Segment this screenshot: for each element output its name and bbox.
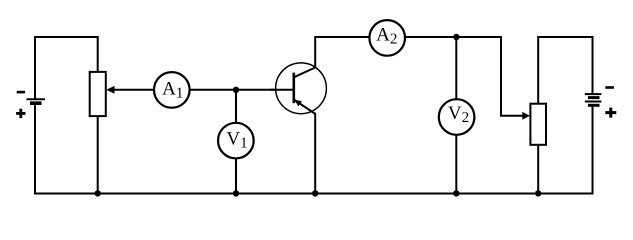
wire: top rail from R2 to battery B2 (537, 36, 592, 38)
wire: emitter vertical down to bus (314, 113, 316, 194)
rheostat R1 wiper arrowhead (106, 86, 114, 94)
transistor Q1 emitter diagonal (294, 100, 315, 114)
battery B1 long thin plate (27, 98, 46, 100)
wire: R1 top stub (97, 36, 99, 73)
label: B1 minus sign (17, 91, 25, 94)
label: B1 plus sign (16, 109, 25, 118)
ammeter A2 circle (369, 20, 405, 56)
ammeter A1 circle (154, 72, 190, 108)
transistor Q1 collector diagonal (294, 68, 315, 78)
battery B2 plate 2 (thick short) (588, 96, 600, 99)
wire: V1 bottom stub to bus (235, 157, 237, 194)
node: junction dot bus / V1 (233, 190, 239, 196)
wire: V1 stub down from base-wire junction (235, 90, 237, 125)
wire: top rail from collector to A2 to corner (314, 36, 501, 38)
voltmeter V1 circle (218, 123, 254, 159)
wire: V2 stub down from top-rail junction (455, 37, 457, 100)
transistor Q1 body circle (276, 63, 327, 114)
rheostat R1 (left potentiometer) (90, 72, 106, 116)
wire: collector vertical up to top rail (314, 38, 316, 68)
wire: base wire segment inside Q1 (270, 89, 295, 91)
voltmeter V2 circle (439, 99, 475, 135)
wire: B2 top lead (592, 36, 594, 94)
transistor Q1 emitter arrow (PNP, points toward base) (294, 100, 302, 107)
wire: left vertical upper (B1 top lead) (34, 36, 36, 99)
wire: R2 bottom stub to bus (537, 143, 539, 194)
node: junction dot bus / V2 (453, 190, 459, 196)
wire: B2 bottom lead to bus (592, 107, 594, 195)
wire: V2 bottom stub to bus (455, 134, 457, 194)
wire: R1 wiper to ammeter A1 and on to transistor base (108, 89, 295, 91)
node: junction dot bus / R2 (535, 190, 541, 196)
label: B2 plus sign (605, 108, 616, 118)
rheostat R2 wiper arrowhead (522, 112, 530, 120)
wire: R2 top stub (537, 36, 539, 105)
node: junction dot bus / emitter (312, 190, 318, 196)
node: junction dot top rail / V2 (453, 34, 459, 40)
wire: left vertical lower (B1 bottom lead to bus) (34, 105, 36, 195)
rheostat R2 (right potentiometer) (530, 104, 546, 145)
transistor Q1 base bar (292, 73, 295, 104)
battery B1 short thick plate (30, 101, 42, 105)
battery B2 plate 1 (thin long) (585, 93, 602, 95)
battery B2 plate 4 (thick short) (588, 104, 600, 107)
node: junction dot bus / R1 (95, 190, 101, 196)
wire: R1 bottom stub to bus (97, 115, 99, 194)
node: junction dot base-wire / V1 (233, 87, 239, 93)
label: B2 minus sign (605, 86, 614, 89)
wire: wiper branch vertical (down from top rail corner) (500, 36, 502, 116)
battery B2 plate 3 (thin long) (585, 101, 602, 103)
wire: bottom bus (34, 193, 593, 195)
wire: wiper branch horizontal into R2 (500, 115, 524, 117)
wire: left loop top (battery B1 to rheostat R1) (35, 36, 98, 38)
